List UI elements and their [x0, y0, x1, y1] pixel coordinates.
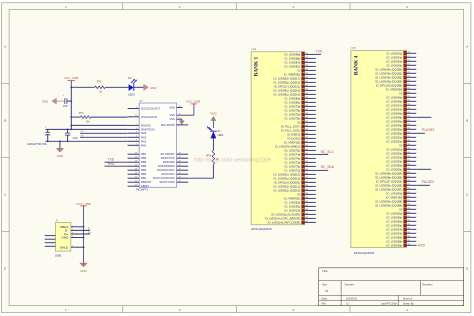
- svg-text:229: 229: [407, 88, 410, 90]
- svg-text:IO, LVDS47a: IO, LVDS47a: [387, 103, 403, 107]
- svg-text:1M: 1M: [86, 120, 89, 123]
- svg-text:IO, LVDS65a: IO, LVDS65a: [387, 211, 403, 215]
- svg-text:RC3/SCK/SCL: RC3/SCK/SCL: [157, 168, 175, 172]
- svg-text:VDD: VDD: [169, 106, 175, 110]
- svg-text:D2: D2: [128, 76, 132, 80]
- svg-text:IO, LVDS59p (DQ1B7): IO, LVDS59p (DQ1B7): [375, 187, 402, 191]
- svg-text:230: 230: [407, 92, 410, 94]
- svg-text:RC_SDA: RC_SDA: [321, 165, 335, 169]
- svg-text:237: 237: [407, 120, 410, 122]
- svg-text:239: 239: [407, 128, 410, 130]
- svg-text:222: 222: [305, 61, 308, 63]
- ground GND (USB): [80, 263, 88, 267]
- svg-text:IO, VREF1B1: IO, VREF1B1: [284, 140, 301, 144]
- svg-text:RC0/T1OSO: RC0/T1OSO: [160, 180, 175, 184]
- svg-text:IO, LVDS53p: IO, LVDS53p: [387, 159, 403, 163]
- svg-text:264: 264: [407, 228, 410, 230]
- svg-text:263: 263: [407, 224, 410, 226]
- svg-text:RC6/TX/CK: RC6/TX/CK: [161, 156, 175, 160]
- svg-text:BANK 1: BANK 1: [254, 56, 260, 76]
- svg-text:IO (nCSO): IO (nCSO): [287, 136, 300, 140]
- svg-text:IO, LVDS81p (DQ0L4): IO, LVDS81p (DQ0L4): [274, 92, 301, 96]
- wire to RA5: [71, 124, 127, 126]
- svg-text:GND: GND: [61, 236, 69, 240]
- svg-text:235: 235: [305, 113, 308, 115]
- svg-text:IO, LVDS58n (DQ1B4): IO, LVDS58n (DQ1B4): [375, 171, 402, 175]
- svg-text:224: 224: [305, 69, 308, 71]
- svg-text:260: 260: [407, 212, 410, 214]
- svg-text:A4: A4: [325, 289, 329, 293]
- svg-text:IO, LVDS67p: IO, LVDS67p: [387, 231, 403, 235]
- svg-text:USB: USB: [55, 253, 61, 257]
- LED D2: [129, 84, 134, 91]
- svg-text:IO, LVDS13a: IO, LVDS13a: [285, 208, 301, 212]
- svg-text:248: 248: [407, 164, 410, 166]
- svg-text:RB7: RB7: [141, 152, 147, 156]
- svg-text:IO, LVDS88p: IO, LVDS88p: [285, 56, 301, 60]
- svg-text:IO, LVDS66p: IO, LVDS66p: [387, 223, 403, 227]
- svg-text:19: 19: [179, 181, 181, 183]
- svg-text:221: 221: [305, 57, 308, 59]
- svg-text:IO, VREF0B4: IO, VREF0B4: [386, 87, 403, 91]
- svg-text:VCC_USB: VCC_USB: [64, 76, 78, 80]
- svg-text:IO, LVDS68p: IO, LVDS68p: [387, 239, 403, 243]
- svg-text:IO, LVDS62p (DQ0L0): IO, LVDS62p (DQ0L0): [274, 188, 301, 192]
- svg-text:249: 249: [305, 169, 308, 171]
- svg-text:247: 247: [407, 160, 410, 162]
- svg-text:RA3: RA3: [141, 131, 147, 135]
- svg-text:2: 2: [136, 144, 137, 146]
- svg-text:RC4/SDI/SDA: RC4/SDI/SDA: [158, 164, 175, 168]
- svg-text:D: D: [466, 267, 468, 271]
- svg-text:25: 25: [135, 165, 137, 167]
- svg-text:5: 5: [136, 132, 137, 134]
- svg-text:232: 232: [407, 100, 410, 102]
- svg-text:IO, LVDS44n (DQ1B0): IO, LVDS44n (DQ1B0): [375, 67, 402, 71]
- svg-text:D: D: [4, 267, 6, 271]
- svg-text:IO, LVDS75n (DM0L): IO, LVDS75n (DM0L): [275, 144, 300, 148]
- svg-text:IO: IO: [399, 207, 402, 211]
- svg-text:IO, DPCLK6 (DQS0B): IO, DPCLK6 (DQS0B): [376, 83, 403, 87]
- svg-text:PULSE2: PULSE2: [422, 180, 435, 184]
- svg-text:RC2/CCP1: RC2/CCP1: [162, 172, 176, 176]
- svg-text:256: 256: [305, 197, 308, 199]
- svg-text:RC5/SDO: RC5/SDO: [163, 160, 175, 164]
- svg-text:225: 225: [407, 72, 410, 74]
- svg-text:IO: IO: [297, 192, 300, 196]
- svg-text:26: 26: [179, 153, 181, 155]
- svg-text:245: 245: [305, 153, 308, 155]
- svg-text:IO, LVDS79a: IO, LVDS79a: [285, 104, 301, 108]
- svg-text:IO, LVDS75p: IO, LVDS75p: [285, 148, 301, 152]
- capacitor C3: [65, 132, 70, 134]
- svg-text:IO, LVDS51a: IO, LVDS51a: [387, 135, 403, 139]
- svg-text:OSC2/CLKOUT: OSC2/CLKOUT: [141, 107, 160, 111]
- svg-text:SHLD: SHLD: [60, 245, 69, 249]
- svg-text:252: 252: [305, 181, 308, 183]
- svg-text:C: C: [4, 193, 6, 197]
- svg-text:IO, LVDS63a: IO, LVDS63a: [285, 200, 301, 204]
- resistor R14: [212, 151, 215, 165]
- svg-text:255: 255: [407, 192, 410, 194]
- svg-text:IO, LVDS73p: IO, LVDS73p: [285, 164, 301, 168]
- svg-text:RA5/SS: RA5/SS: [141, 123, 151, 127]
- svg-text:237: 237: [305, 121, 308, 123]
- svg-text:IO, LVDS72a: IO, LVDS72a: [285, 168, 301, 172]
- svg-text:RB2: RB2: [141, 172, 147, 176]
- svg-text:26: 26: [135, 161, 137, 163]
- svg-text:20: 20: [135, 185, 137, 187]
- svg-text:IO, LVDS46a: IO, LVDS46a: [387, 95, 403, 99]
- ground at VSS: [181, 119, 183, 121]
- svg-text:IO, LVDS66a: IO, LVDS66a: [387, 219, 403, 223]
- svg-text:VSS: VSS: [169, 117, 175, 121]
- svg-text:IO, LVDS61n (DQ0L3): IO, LVDS61n (DQ0L3): [274, 172, 301, 176]
- svg-text:241: 241: [407, 136, 410, 138]
- op-amp U1 MCU box: [139, 103, 176, 187]
- resistor R13: [71, 116, 80, 118]
- svg-text:28: 28: [135, 153, 137, 155]
- svg-text:D-: D-: [88, 227, 91, 231]
- svg-text:IO, PLL1_OUTn: IO, PLL1_OUTn: [281, 124, 301, 128]
- svg-text:1: 1: [63, 95, 64, 97]
- svg-text:IO, VREF1B4: IO, VREF1B4: [386, 195, 403, 199]
- svg-text:227: 227: [305, 81, 308, 83]
- zone ticks: [122, 3, 124, 10]
- wire to OSC1: [91, 116, 128, 118]
- capacitor C2 polarized: [45, 131, 50, 133]
- svg-text:223: 223: [305, 65, 308, 67]
- svg-text:IO, DPCLK1 (DQS1L): IO, DPCLK1 (DQS1L): [274, 84, 300, 88]
- svg-text:R?3: R?3: [79, 112, 84, 115]
- svg-text:258: 258: [305, 205, 308, 207]
- svg-text:234: 234: [407, 108, 410, 110]
- svg-text:IO, LVDS50a: IO, LVDS50a: [387, 127, 403, 131]
- svg-text:IO, LVDS67a: IO, LVDS67a: [387, 227, 403, 231]
- svg-text:IO, LVDS48p: IO, LVDS48p: [387, 115, 403, 119]
- MCU left pins: [128, 108, 140, 110]
- svg-text:257: 257: [305, 201, 308, 203]
- svg-text:239: 239: [305, 129, 308, 131]
- svg-text:232: 232: [305, 101, 308, 103]
- svg-text:RC1/T1OSI/CCP2: RC1/T1OSI/CCP2: [153, 176, 175, 180]
- svg-text:IO: IO: [399, 91, 402, 95]
- svg-text:IO, LVDS50p: IO, LVDS50p: [387, 131, 403, 135]
- svg-text:B: B: [4, 119, 6, 123]
- svg-text:IO: IO: [399, 143, 402, 147]
- svg-text:233: 233: [305, 105, 308, 107]
- svg-text:241: 241: [305, 137, 308, 139]
- svg-text:260: 260: [305, 213, 308, 215]
- svg-text:IO, VREF0B1: IO, VREF0B1: [284, 196, 301, 200]
- svg-text:IO, LVDS78a: IO, LVDS78a: [285, 112, 301, 116]
- svg-text:CAP: CAP: [73, 137, 78, 140]
- svg-text:267: 267: [407, 240, 410, 242]
- svg-text:IO, LVDS60a: IO, LVDS60a: [387, 191, 403, 195]
- svg-text:244: 244: [305, 149, 308, 151]
- svg-text:228: 228: [305, 85, 308, 87]
- svg-text:IO: IO: [297, 120, 300, 124]
- svg-text:10: 10: [135, 115, 137, 117]
- svg-text:IO, LVDS44p (DQ1B1): IO, LVDS44p (DQ1B1): [375, 71, 402, 75]
- svg-text:RB5: RB5: [141, 160, 147, 164]
- svg-text:IO, LVDS42a: IO, LVDS42a: [387, 59, 403, 63]
- svg-text:3: 3: [136, 140, 137, 142]
- vertical feed wire: [70, 87, 72, 129]
- svg-text:RA1: RA1: [141, 139, 147, 143]
- svg-text:File:: File:: [322, 303, 327, 306]
- svg-text:23: 23: [179, 165, 181, 167]
- svg-text:24: 24: [179, 161, 181, 163]
- svg-text:TXD: TXD: [316, 50, 323, 54]
- svg-text:RXD: RXD: [108, 162, 116, 166]
- svg-text:254: 254: [305, 189, 308, 191]
- svg-text:227: 227: [407, 80, 410, 82]
- svg-text:257: 257: [407, 200, 410, 202]
- svg-text:238: 238: [305, 125, 308, 127]
- svg-text:242: 242: [305, 141, 308, 143]
- svg-text:IO, LVDS80p: IO, LVDS80p: [285, 100, 301, 104]
- svg-text:IO, LVDS56a: IO, LVDS56a: [387, 163, 403, 167]
- svg-text:IO, LVDS74p: IO, LVDS74p: [285, 156, 301, 160]
- svg-text:LED3: LED3: [218, 135, 224, 137]
- svg-text:IO, LVDS13p (CLKUSR): IO, LVDS13p (CLKUSR): [271, 212, 300, 216]
- svg-text:IO, LVDS41a: IO, LVDS41a: [387, 51, 403, 55]
- svg-text:B: B: [466, 119, 468, 123]
- ground (left arrow): [52, 98, 56, 104]
- svg-text:2: 2: [45, 127, 46, 129]
- svg-text:IO, LVDS51p: IO, LVDS51p: [387, 139, 403, 143]
- svg-text:IO, LVDS14n (CRC_ERROR): IO, LVDS14n (CRC_ERROR): [265, 216, 300, 220]
- svg-text:235: 235: [407, 112, 410, 114]
- svg-text:IO, LVDS14p (INIT_DONE): IO, LVDS14p (INIT_DONE): [268, 220, 301, 224]
- svg-text:GND: GND: [80, 269, 86, 273]
- svg-text:GND: GND: [210, 111, 216, 115]
- svg-text:C: C: [466, 193, 468, 197]
- svg-text:IO, LVDS73a: IO, LVDS73a: [285, 160, 301, 164]
- svg-text:242: 242: [407, 140, 410, 142]
- LED D3: [210, 130, 217, 132]
- svg-text:A: A: [466, 45, 468, 49]
- svg-text:224: 224: [407, 68, 410, 70]
- svg-text:IO, LVDS87a: IO, LVDS87a: [285, 60, 301, 64]
- svg-text:BANK 4: BANK 4: [353, 55, 359, 75]
- svg-text:7: 7: [136, 124, 137, 126]
- svg-text:IO, LVDS46p: IO, LVDS46p: [387, 99, 403, 103]
- op-amp U?b FPGA bank BANK 4: [351, 51, 407, 248]
- svg-text:23: 23: [135, 173, 137, 175]
- svg-text:233: 233: [407, 104, 410, 106]
- svg-text:Drawn By:: Drawn By:: [403, 303, 415, 306]
- svg-text:248: 248: [305, 165, 308, 167]
- svg-text:RB0/INT: RB0/INT: [141, 180, 152, 184]
- wire bottom rail to RA1: [46, 140, 128, 142]
- svg-text:250: 250: [305, 173, 308, 175]
- svg-text:240: 240: [305, 133, 308, 135]
- svg-text:RB1: RB1: [141, 176, 147, 180]
- svg-text:261: 261: [407, 216, 410, 218]
- svg-text:249: 249: [407, 168, 410, 170]
- svg-text:251: 251: [407, 176, 410, 178]
- svg-text:6: 6: [136, 128, 137, 130]
- svg-text:RC_SCL: RC_SCL: [321, 150, 334, 154]
- svg-text:IO, LVDS61p (DQ0L2): IO, LVDS61p (DQ0L2): [274, 176, 301, 180]
- svg-text:24: 24: [135, 169, 137, 171]
- svg-text:21: 21: [179, 173, 181, 175]
- svg-text:226: 226: [407, 76, 410, 78]
- svg-text:256: 256: [407, 196, 410, 198]
- svg-text:D+: D+: [88, 230, 92, 234]
- svg-text:27: 27: [135, 157, 137, 159]
- svg-text:22: 22: [179, 169, 181, 171]
- wire to RC1: [212, 164, 214, 178]
- svg-text:236: 236: [305, 117, 308, 119]
- svg-text:IO, LVDS64n (DQ1B8): IO, LVDS64n (DQ1B8): [375, 199, 402, 203]
- svg-text:GND: GND: [57, 154, 63, 158]
- svg-text:VCC_USB: VCC_USB: [76, 202, 90, 206]
- svg-text:20: 20: [179, 177, 181, 179]
- svg-text:RA0: RA0: [141, 143, 147, 147]
- svg-text:IO, LVDS81n (DQ0L5): IO, LVDS81n (DQ0L5): [274, 88, 301, 92]
- USB shield stubs: [45, 235, 56, 237]
- svg-text:EP3C16Q240C8: EP3C16Q240C8: [354, 251, 375, 255]
- svg-text:IO, LVDS56p: IO, LVDS56p: [387, 167, 403, 171]
- svg-text:244: 244: [407, 148, 410, 150]
- svg-text:IO, LVDS41p: IO, LVDS41p: [387, 55, 403, 59]
- svg-text:IO, LVDS52a: IO, LVDS52a: [387, 147, 403, 151]
- svg-text:IO, LVDS80a: IO, LVDS80a: [285, 96, 301, 100]
- svg-text:IO, LVDS59n (DQ1B6): IO, LVDS59n (DQ1B6): [375, 183, 402, 187]
- svg-text:4: 4: [136, 136, 137, 138]
- svg-text:259: 259: [407, 208, 410, 210]
- svg-text:IO, LVDS74a: IO, LVDS74a: [285, 152, 301, 156]
- wire main top rail: [71, 86, 94, 88]
- wire: [212, 138, 214, 150]
- svg-text:220: 220: [305, 53, 308, 55]
- svg-text:Title: Title: [322, 269, 328, 273]
- svg-text:U?b: U?b: [351, 47, 356, 50]
- svg-text:IO, LVDS42p: IO, LVDS42p: [387, 63, 403, 67]
- svg-text:PULSE1: PULSE1: [422, 128, 435, 132]
- svg-text:IO, VREF2B1: IO, VREF2B1: [284, 72, 301, 76]
- svg-text:262: 262: [305, 221, 308, 223]
- svg-text:IO, PLL1_OUTp: IO, PLL1_OUTp: [281, 128, 301, 132]
- svg-text:RB4: RB4: [141, 164, 147, 168]
- svg-text:221: 221: [407, 56, 410, 58]
- svg-text:222: 222: [407, 60, 410, 62]
- svg-text:RXD: RXD: [418, 243, 426, 247]
- svg-text:262: 262: [407, 220, 410, 222]
- svg-text:IO, LVDS63p: IO, LVDS63p: [285, 204, 301, 208]
- svg-text:234: 234: [305, 109, 308, 111]
- svg-text:229: 229: [305, 89, 308, 91]
- svg-text:IO, LVDS88a: IO, LVDS88a: [285, 52, 301, 56]
- svg-text:243: 243: [407, 144, 410, 146]
- svg-text:238: 238: [407, 124, 410, 126]
- svg-text:220: 220: [407, 52, 410, 54]
- svg-text:226: 226: [305, 77, 308, 79]
- svg-text:261: 261: [305, 217, 308, 219]
- svg-text:IO, DPCLK7 (DQS1B): IO, DPCLK7 (DQS1B): [376, 179, 403, 183]
- svg-text:246: 246: [305, 157, 308, 159]
- svg-text:Date:: Date:: [322, 297, 328, 300]
- svg-text:EP3C16Q240C8: EP3C16Q240C8: [252, 227, 273, 231]
- svg-text:IO, LVDS87p: IO, LVDS87p: [285, 64, 301, 68]
- svg-text:IO (ASDO): IO (ASDO): [287, 132, 300, 136]
- svg-text:IO, DPCLK0 (DQS0L): IO, DPCLK0 (DQS0L): [274, 180, 300, 184]
- svg-text:21: 21: [135, 181, 137, 183]
- svg-text:Number: Number: [345, 283, 354, 287]
- svg-text:251: 251: [305, 177, 308, 179]
- svg-text:RA4/T0CKI: RA4/T0CKI: [141, 127, 155, 131]
- resistor R12: [95, 86, 106, 89]
- svg-text:250: 250: [407, 172, 410, 174]
- svg-text:IO, LVDS58p (DQ1B5): IO, LVDS58p (DQ1B5): [375, 175, 402, 179]
- svg-text:MCLR/VPP: MCLR/VPP: [161, 123, 175, 127]
- svg-text:RB3: RB3: [141, 168, 147, 172]
- svg-text:VSS: VSS: [169, 113, 175, 117]
- svg-text:253: 253: [305, 185, 308, 187]
- title block: [319, 268, 464, 306]
- wire: [134, 86, 144, 88]
- svg-text:1K: 1K: [99, 91, 102, 94]
- svg-text:IO, LVDS49p: IO, LVDS49p: [387, 123, 403, 127]
- svg-text:252: 252: [407, 180, 410, 182]
- svg-text:VCC_USB: VCC_USB: [186, 100, 200, 104]
- svg-text:231: 231: [407, 96, 410, 98]
- svg-text:Size: Size: [322, 283, 328, 287]
- svg-text:25: 25: [179, 157, 181, 159]
- svg-text:CAP: CAP: [63, 105, 68, 108]
- svg-text:IO, LVDS68a: IO, LVDS68a: [387, 235, 403, 239]
- wire to RA3: [80, 132, 127, 134]
- svg-text:228: 228: [407, 84, 410, 86]
- svg-text:IO, LVDS48a: IO, LVDS48a: [387, 111, 403, 115]
- svg-text:247: 247: [305, 161, 308, 163]
- svg-text:2014/5/31: 2014/5/31: [346, 297, 358, 300]
- svg-text:231: 231: [305, 97, 308, 99]
- svg-text:230: 230: [305, 93, 308, 95]
- svg-text:Revision: Revision: [423, 283, 434, 287]
- svg-text:RB6: RB6: [141, 156, 147, 160]
- svg-text:http://blog.csdn.net/anling200: http://blog.csdn.net/anling2009: [194, 158, 271, 164]
- wire top rail to RA4: [46, 128, 128, 130]
- svg-text:255: 255: [305, 193, 308, 195]
- svg-text:IO, LVDS45n (DQ1B2): IO, LVDS45n (DQ1B2): [375, 75, 402, 79]
- ground drop: [59, 141, 61, 148]
- svg-text:KBINT: KBINT: [141, 184, 149, 188]
- svg-text:243: 243: [305, 145, 308, 147]
- svg-text:IO, LVDS69p: IO, LVDS69p: [387, 243, 403, 247]
- USB pin wires: [71, 226, 84, 228]
- op-amp U?a FPGA bank BANK 1: [251, 52, 305, 225]
- svg-text:RC7/RX/DT: RC7/RX/DT: [161, 152, 176, 156]
- svg-text:IO: IO: [297, 68, 300, 72]
- svg-text:IO, LVDS47p: IO, LVDS47p: [387, 107, 403, 111]
- wire: [105, 86, 128, 88]
- svg-text:IO, LVDS53a: IO, LVDS53a: [387, 155, 403, 159]
- svg-text:IO, LVDS82p (DQ0L6): IO, LVDS82p (DQ0L6): [274, 80, 301, 84]
- svg-text:A: A: [4, 45, 6, 49]
- svg-text:253: 253: [407, 184, 410, 186]
- wire to RA2: [80, 136, 127, 138]
- svg-text:266: 266: [407, 236, 410, 238]
- svg-text:265: 265: [407, 232, 410, 234]
- svg-text:268: 268: [407, 244, 410, 246]
- svg-text:..\pcb\PT3.Ddb: ..\pcb\PT3.Ddb: [380, 303, 397, 306]
- svg-text:245: 245: [407, 152, 410, 154]
- svg-text:RA2: RA2: [141, 135, 147, 139]
